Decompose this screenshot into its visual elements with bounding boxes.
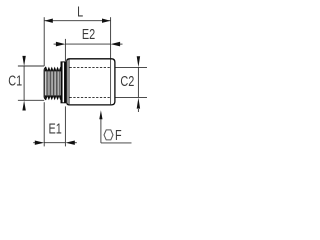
- svg-text:C2: C2: [120, 73, 134, 90]
- male thread flank lines: [46, 70, 59, 96]
- svg-text:E2: E2: [82, 26, 95, 43]
- washer / seal: [61, 62, 66, 103]
- dimension E2 dim line: [54, 43, 123, 45]
- dimension C2 arrowheads (outside): [137, 56, 140, 108]
- label E1: [49, 120, 62, 137]
- dimension C1 arrowheads (outside): [22, 56, 25, 111]
- label L: [77, 3, 83, 20]
- male thread left face: [44, 67, 46, 100]
- dimension C1 extension lines: [18, 66, 44, 100]
- body (female end) outline: [67, 59, 115, 105]
- svg-text:F: F: [115, 126, 122, 143]
- label C1: [8, 72, 22, 89]
- dimension E2 left extension line: [64, 39, 66, 61]
- label F: [115, 126, 122, 143]
- dimension L extension lines: [44, 17, 110, 66]
- svg-text:C1: C1: [8, 72, 22, 89]
- dimension L arrowheads: [44, 19, 110, 23]
- dimension E1 dim line: [33, 142, 77, 144]
- label E2: [82, 26, 95, 43]
- svg-text:E1: E1: [49, 120, 62, 137]
- internal thread hidden line top: [70, 66, 111, 68]
- dimension E1 arrowheads (outside): [35, 141, 75, 145]
- internal thread hidden line bottom: [70, 96, 111, 98]
- svg-text:L: L: [77, 3, 83, 20]
- male thread crest teeth bottom: [45, 95, 61, 100]
- dimension L dim line: [44, 20, 110, 22]
- dimension E1 extension lines: [44, 102, 65, 146]
- body hex start line: [68, 59, 70, 104]
- hexagon symbol: [104, 130, 113, 140]
- dimension C2 extension lines: [116, 67, 148, 97]
- male thread crest teeth top: [45, 67, 61, 72]
- leader arrowhead (pointing up at body): [99, 110, 102, 119]
- dimension C2 dim line: [137, 67, 139, 112]
- dimension C1 dim line: [23, 66, 25, 100]
- body hex/collar boundary: [110, 59, 112, 104]
- label C2: [120, 73, 134, 90]
- leader line for F: [101, 119, 132, 143]
- dimension E2 arrowheads (outside): [56, 42, 120, 47]
